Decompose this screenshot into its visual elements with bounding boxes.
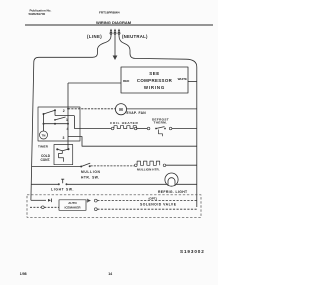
svg-text:1: 1 [66,118,68,122]
switch S3: mullion heater switch [80,163,91,167]
svg-text:3: 3 [63,136,65,140]
svg-text:TIMER: TIMER [38,144,49,148]
wire: light row from line bus [31,183,58,185]
wire: mullion row from line bus [32,166,81,168]
svg-text:(LINE): (LINE) [87,34,102,39]
svg-text:REFRIG. LIGHT: REFRIG. LIGHT [158,190,188,194]
ground: power cord ground prong with down arrow [113,31,118,60]
node: right bus (NEUTRAL side) [119,31,197,207]
svg-text:5995281700: 5995281700 [29,12,46,16]
svg-text:MULLION HTR.: MULLION HTR. [137,167,160,171]
terminal: mullion heater right [163,164,166,167]
svg-text:MULLION: MULLION [81,170,101,174]
svg-text:RED: RED [123,79,130,83]
lamp DS1: refrigerator light bulb [165,173,178,186]
svg-text:COMPRESSOR: COMPRESSOR [137,78,173,83]
connector J2: icemaker aux terminal left [30,206,59,209]
icemaker box: AUTO ICEMAKER [59,200,86,211]
terminal: mullion heater left [135,164,138,167]
connector P2: icemaker output plug right [87,199,97,203]
svg-text:2: 2 [63,109,65,113]
thermostat S2: cold control [54,145,73,165]
svg-text:14: 14 [108,272,112,276]
wire: icemaker to solenoid valve (dashed optional) [97,200,197,202]
resistor R1: defrost coil heater element [114,126,136,129]
compressor box U1: SEE COMPRESSOR WIRING [121,67,188,93]
svg-text:1/98: 1/98 [20,272,27,276]
svg-text:(OPT.): (OPT.) [149,196,158,200]
terminal: coil heater left [111,127,114,130]
power plug prong terminals [110,32,120,34]
wire: evaporator fan row [68,108,115,110]
svg-text:SEE: SEE [149,71,160,76]
wire: timer internal left vertical [43,114,45,131]
wire: header rule [25,24,213,26]
wire: heater to defrost thermostat [137,128,147,130]
svg-text:THERM.: THERM. [154,121,168,125]
wire: line bus to icemaker plug [31,199,46,201]
svg-text:TM: TM [42,133,46,137]
wire: solenoid return (dashed optional) [97,208,197,210]
wire: mullion switch to heater [91,165,135,167]
node: left bus (LINE side) [31,31,111,200]
svg-text:WIRING DIAGRAM: WIRING DIAGRAM [96,20,132,25]
svg-text:EVAP. FAN: EVAP. FAN [127,111,147,115]
svg-text:AUTO: AUTO [68,201,77,205]
terminal: defrost therm left [147,127,150,130]
optional icemaker dashed enclosure [27,195,201,218]
svg-text:CONT.: CONT. [41,158,51,162]
wire: WHITE lead compressor to neutral bus [188,81,197,83]
svg-text:4: 4 [67,127,69,131]
svg-text:COIL HEATER: COIL HEATER [110,121,138,125]
wire: defrost heater feed from timer terminal 2 [75,116,112,129]
timer contact arm to terminal 2 [43,109,75,115]
wire: mullion heater to neutral bus [166,164,197,166]
junction: timer motor tap [43,123,45,125]
power plug prong arrowheads [110,29,120,32]
svg-text:FRT18PRBW4: FRT18PRBW4 [99,11,120,15]
switch S1: defrost thermostat contact [155,127,166,137]
svg-text:ICEMAKER: ICEMAKER [64,205,81,209]
svg-text:WIRING: WIRING [144,85,165,90]
switch S4: refrigerator light door switch [58,179,68,185]
resistor R2: mullion heater element [137,161,160,165]
connector P1: icemaker plug [48,199,52,203]
svg-text:HTR. SW.: HTR. SW. [81,176,100,180]
wire: evap fan to neutral bus [127,108,197,110]
svg-text:M: M [119,107,123,112]
wire: timer terminal 3 to neutral bus [68,137,197,147]
wire: defrost row to neutral bus [172,128,197,130]
terminal: coil heater right [134,127,137,130]
timer T1: defrost timer box [38,107,80,141]
svg-text:WHITE: WHITE [178,77,187,81]
wire: RED lead to compressor [68,82,121,84]
svg-text:LIGHT SW.: LIGHT SW. [51,188,74,192]
svg-text:COLD: COLD [41,154,51,158]
motor M1: evaporator fan motor [115,104,126,115]
motor TM: timer motor [40,131,48,139]
wire: vertical feed x68 from compressor RED down to cold control [67,83,69,149]
svg-text:S193002: S193002 [180,249,205,254]
terminal: defrost therm right [169,127,172,130]
timer contact line terminal 1-4 [44,117,70,125]
wire: light switch to lamp and neutral bus [67,183,197,185]
svg-text:SOLENOID VALVE: SOLENOID VALVE [140,202,177,206]
svg-text:(NEUTRAL): (NEUTRAL) [122,34,148,39]
terminal: icemaker aux right [94,208,97,211]
junction: evap fan tap [67,108,69,110]
